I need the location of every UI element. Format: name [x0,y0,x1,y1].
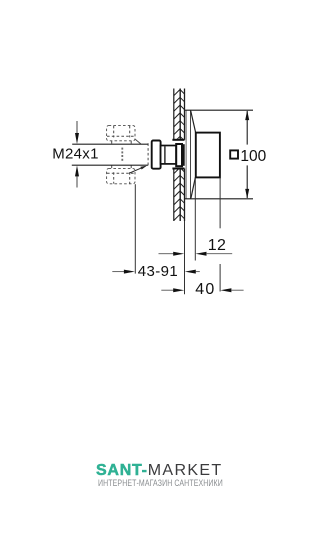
stem sleeve [161,146,177,164]
threaded inlet tube M24x1 [72,144,148,165]
extension line: handle front [219,178,221,292]
stem cap nut [152,141,161,169]
logo SANT-MARKET [96,463,223,479]
escutcheon bottom edge / extension line [184,198,253,200]
wall section (hatched) [174,89,185,222]
valve spindle marking [121,148,123,161]
stem wall flange [176,144,182,166]
extension line: escutcheon front [194,178,196,261]
dimension 43-91 [112,263,200,280]
dimension 100 (vertical) [230,110,266,198]
svg-text:43-91: 43-91 [138,263,178,280]
svg-text:M24x1: M24x1 [52,146,99,163]
flange shadow in wall opening [182,144,185,166]
svg-text:12: 12 [208,237,226,254]
dimension 40 [161,281,243,298]
svg-text:100: 100 [240,148,266,165]
valve body top hex union (dashed) [107,126,135,144]
cube handle [196,133,220,178]
logo subtitle [98,479,223,488]
valve body bottom hex union (dashed) [107,165,135,183]
chamfer line top [135,139,141,144]
wall cutout edges [172,140,184,169]
extension line: valve hex face [134,184,136,273]
dimension 12 [159,237,233,256]
svg-text:40: 40 [195,281,215,298]
valve body front end (dashed) [147,143,149,166]
extension line: wall face [184,221,186,294]
dimension M24x1 [52,121,99,188]
escutcheon cone slopes [191,111,196,199]
escutcheon back plate [186,110,190,199]
leader arrow to valve outlet [129,166,147,174]
escutcheon top edge / extension line [184,109,253,111]
